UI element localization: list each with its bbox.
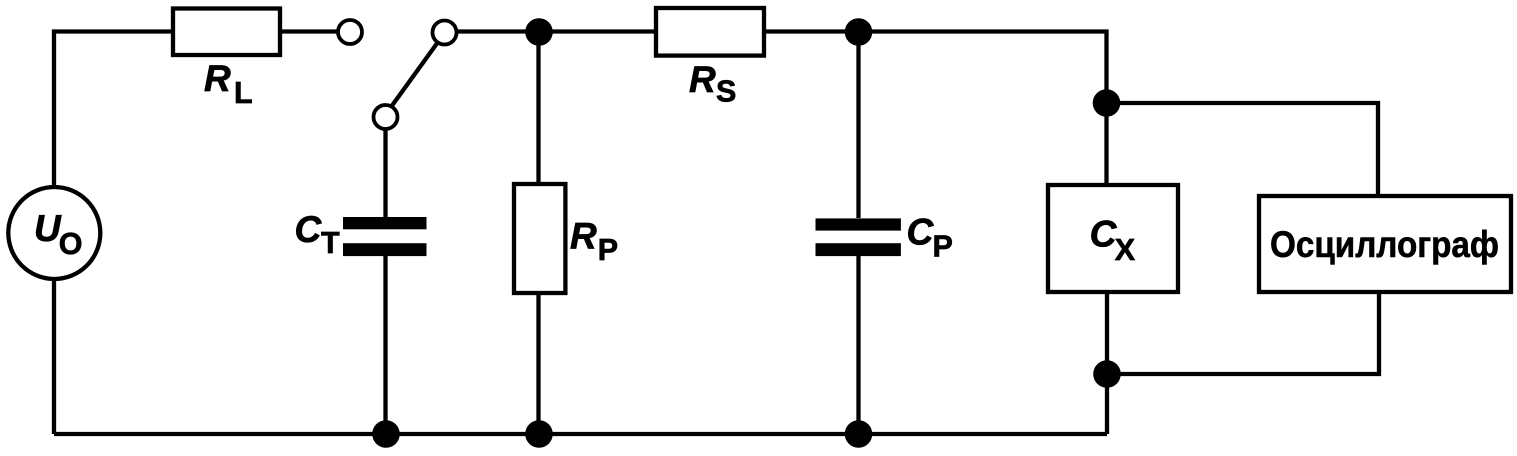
svg-text:R: R [204, 58, 231, 99]
switch terminal circle left [338, 20, 362, 44]
resistor RS [656, 8, 764, 56]
svg-text:C: C [295, 209, 323, 250]
junction node C [1093, 89, 1121, 117]
wire: CP to bottom rail [856, 256, 860, 434]
svg-text:R: R [570, 215, 597, 256]
box CX [1048, 185, 1178, 292]
capacitor CP bottom plate [816, 243, 901, 256]
svg-text:S: S [716, 75, 736, 109]
svg-text:L: L [234, 76, 253, 110]
wire: RP to bottom rail [536, 293, 540, 434]
bottom rail wire [54, 432, 1107, 436]
wire: node D to oscilloscope bottom [1107, 292, 1379, 374]
wire: RL to switch left terminal [280, 29, 338, 33]
wire: node C to oscilloscope top [1107, 103, 1379, 196]
svg-text:P: P [598, 233, 618, 267]
capacitor CT top plate [343, 217, 427, 229]
svg-text:C: C [907, 211, 935, 252]
switch terminal circle lower [374, 105, 398, 129]
junction node D [1093, 360, 1121, 388]
svg-text:T: T [321, 226, 340, 260]
junction bottom CP [845, 420, 873, 448]
wire: node A down to RP [536, 32, 540, 184]
wire: source top to R_L [54, 32, 173, 191]
wire: RS to top right corner [764, 32, 1107, 186]
resistor RL [173, 9, 280, 56]
wire: CT to bottom rail [383, 256, 387, 434]
capacitor CP top plate [816, 218, 901, 230]
svg-text:P: P [933, 230, 953, 264]
wire: switch lower terminal to CT top plate [383, 128, 387, 217]
switch arm wire [391, 42, 438, 107]
svg-text:C: C [1090, 214, 1118, 255]
capacitor CT bottom plate [343, 243, 427, 256]
resistor RP [514, 184, 565, 293]
junction node B [845, 18, 873, 46]
switch terminal circle right [433, 21, 457, 45]
wire: CX bottom to bottom rail corner [1105, 292, 1109, 434]
svg-text:O: O [59, 227, 83, 261]
junction bottom RP [525, 420, 553, 448]
junction node A [525, 18, 553, 46]
voltage source U0 [8, 187, 100, 279]
box oscilloscope [1259, 196, 1511, 292]
wire: switch right terminal to RS [457, 29, 657, 33]
junction bottom CT [372, 420, 400, 448]
svg-text:R: R [689, 59, 716, 100]
svg-text:Осциллограф: Осциллограф [1270, 224, 1499, 265]
wire: node B down to CP [856, 32, 860, 218]
svg-text:X: X [1115, 233, 1136, 267]
wire: source bottom to bottom rail [52, 276, 56, 434]
